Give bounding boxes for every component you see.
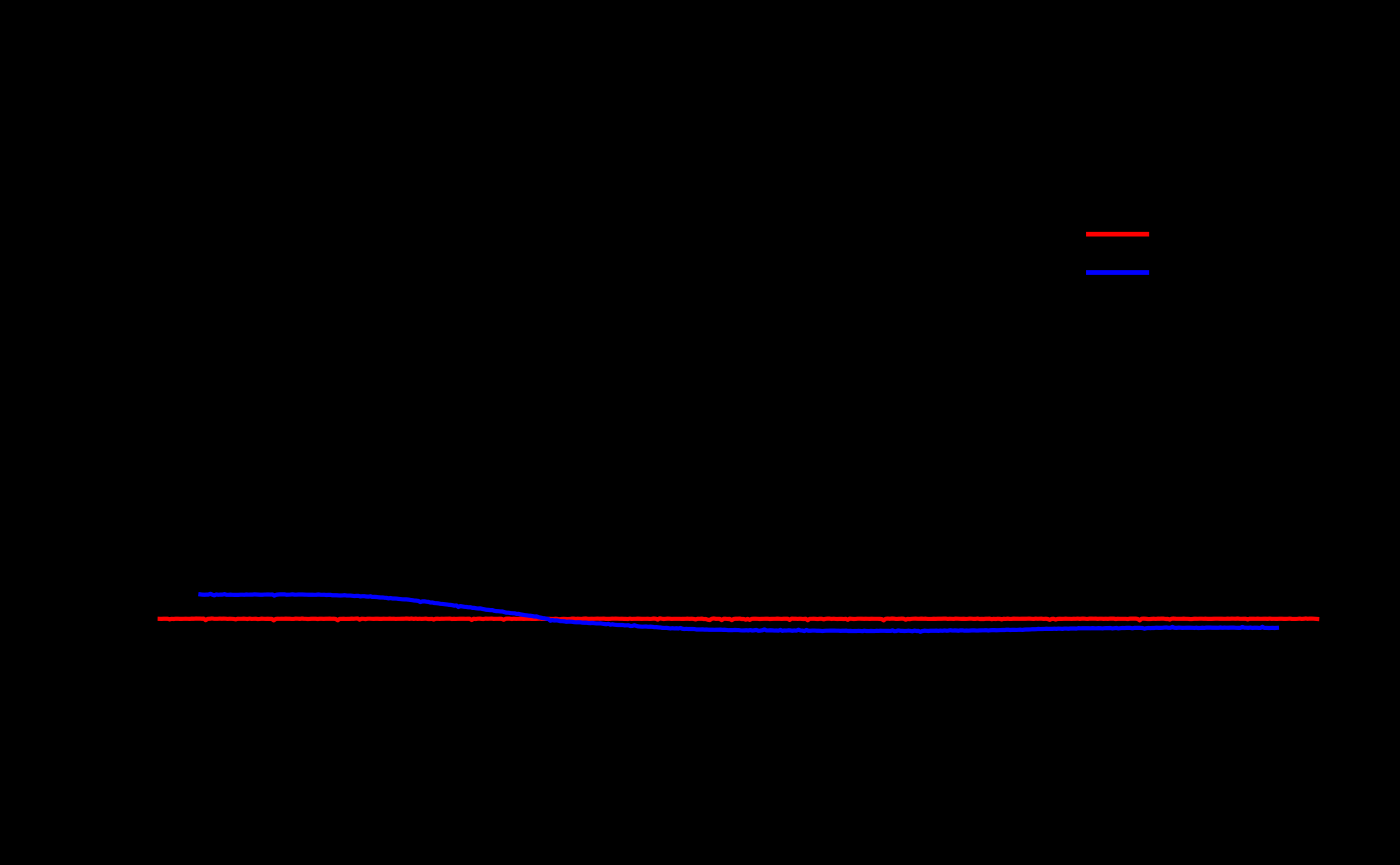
blue series line (estimate) [200, 594, 1277, 632]
red series line (true function) [160, 618, 1318, 620]
legend blue handle [1088, 270, 1146, 275]
legend red handle [1088, 232, 1146, 237]
